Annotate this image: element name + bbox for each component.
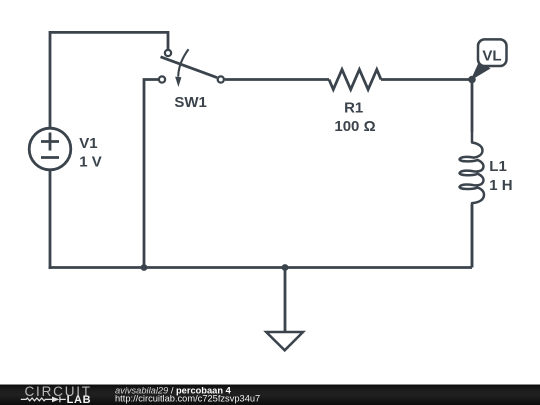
svg-text:L1: L1 xyxy=(489,158,507,175)
voltmeter probe VL pointer xyxy=(471,61,491,81)
wire bottom xyxy=(49,266,472,269)
junction dot at switch branch xyxy=(141,264,148,271)
svg-text:http://circuitlab.com/c725fzsv: http://circuitlab.com/c725fzsvp34u7 xyxy=(115,394,260,404)
logo squiggle xyxy=(21,397,66,403)
svg-text:R1: R1 xyxy=(344,100,363,117)
switch SW1 xyxy=(159,50,224,83)
svg-text:VL: VL xyxy=(482,47,501,64)
inductor L1 xyxy=(460,131,484,268)
svg-text:1 V: 1 V xyxy=(79,153,102,170)
junction dot at ground xyxy=(282,264,289,271)
wire resistor to node xyxy=(381,78,472,81)
wire switch to resistor xyxy=(225,78,329,81)
logo diode xyxy=(52,397,59,403)
svg-text:100 Ω: 100 Ω xyxy=(334,118,375,135)
footer bar xyxy=(0,384,540,405)
ground xyxy=(266,332,303,350)
voltmeter probe VL box xyxy=(478,39,507,66)
resistor R1 xyxy=(329,70,381,90)
wire ground stem xyxy=(284,268,287,333)
svg-text:1 H: 1 H xyxy=(489,177,512,194)
wire left lower xyxy=(49,170,52,269)
svg-text:SW1: SW1 xyxy=(174,94,207,111)
svg-text:V1: V1 xyxy=(79,135,97,152)
node VL junction dot xyxy=(468,76,476,84)
wire top xyxy=(50,32,168,49)
wire left xyxy=(49,31,52,129)
wire inductor to bottom xyxy=(471,205,474,268)
svg-text:LAB: LAB xyxy=(67,394,92,405)
wire node to inductor xyxy=(471,80,474,132)
voltage source V1 xyxy=(29,128,71,170)
wire switch branch xyxy=(144,80,158,268)
switch arrow xyxy=(178,49,188,76)
